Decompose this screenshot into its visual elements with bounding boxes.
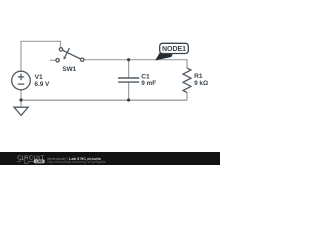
wire switch open stub [50, 59, 56, 61]
wire V1 bottom to ground [20, 90, 22, 108]
junction dot at top capacitor tap [127, 58, 130, 61]
svg-text:9 mF: 9 mF [141, 80, 156, 87]
wire capacitor bottom lead [128, 82, 130, 100]
ground [14, 107, 28, 115]
wire bottom horizontal [21, 99, 187, 101]
svg-text:SW1: SW1 [62, 66, 76, 73]
resistor R1 [183, 68, 191, 93]
wire top horizontal (switch to resistor corner) [84, 59, 187, 61]
wire resistor bottom lead [186, 92, 188, 100]
svg-text:http://circuitlab.com/cmj7z7pz: http://circuitlab.com/cmj7z7pz6gdde [47, 160, 106, 164]
svg-text:NODE1: NODE1 [162, 46, 186, 53]
node NODE1 callout balloon [160, 43, 189, 53]
svg-text:6.9 V: 6.9 V [34, 81, 50, 88]
wire switch upper lead [60, 41, 62, 48]
junction dot at V1 ground tap [19, 98, 22, 101]
switch SW1 [56, 48, 84, 62]
svg-text:V1: V1 [35, 74, 43, 81]
capacitor C1 [118, 78, 139, 82]
wire top-left vertical (V1 top to corner) [20, 41, 22, 71]
node NODE1 callout tail [155, 52, 172, 61]
junction dot at bottom capacitor tap [127, 98, 130, 101]
svg-text:LAB: LAB [36, 160, 44, 164]
voltage source V1 [12, 71, 31, 90]
wire capacitor top lead [128, 60, 130, 78]
footer bar [0, 152, 220, 165]
wire top-left horizontal [20, 40, 60, 42]
svg-text:9 kΩ: 9 kΩ [194, 80, 208, 87]
switch SW1 actuator arrowhead [64, 56, 67, 59]
footer logo LAB box [34, 160, 45, 164]
wire resistor top lead [186, 59, 188, 68]
footer logo waveform [17, 160, 34, 163]
